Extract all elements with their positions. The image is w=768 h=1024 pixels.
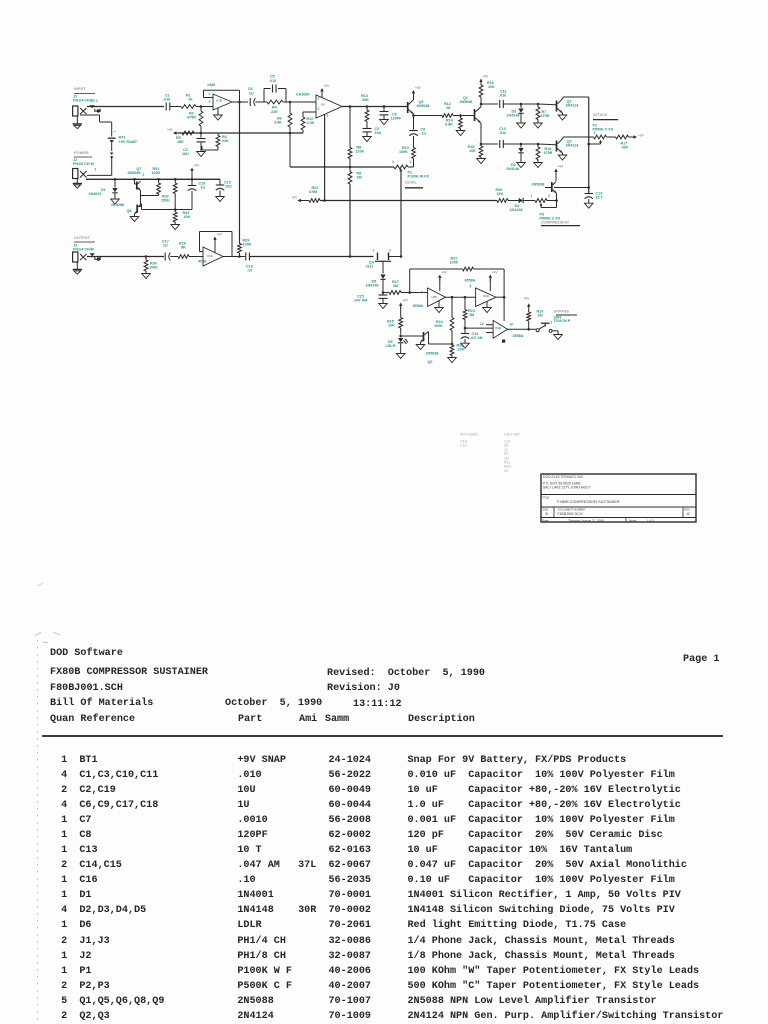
svg-text:150K: 150K <box>161 199 170 203</box>
wire pot P1 wiper down <box>400 172 402 257</box>
svg-text:LAST REF.: LAST REF. <box>504 433 521 437</box>
separator rule <box>42 735 723 737</box>
svg-text:18K: 18K <box>177 140 184 144</box>
diode D2 <box>520 144 522 148</box>
svg-text:100K: 100K <box>399 150 408 154</box>
svg-text:2N5088: 2N5088 <box>128 171 141 175</box>
wire <box>538 143 556 146</box>
resistor R14 <box>460 116 462 119</box>
svg-text:SALT LAKE CITY, UTAH 84107: SALT LAKE CITY, UTAH 84107 <box>543 486 590 490</box>
svg-text:+9V: +9V <box>167 128 174 132</box>
capacitor C16 <box>245 253 247 261</box>
left margin dotted line <box>37 640 38 1024</box>
power +9V at R21 <box>298 199 302 202</box>
svg-text:100K: 100K <box>434 324 443 328</box>
svg-text:3.9K: 3.9K <box>274 121 282 125</box>
power +9V at U1A <box>214 239 216 243</box>
svg-text:10U: 10U <box>375 131 382 135</box>
node <box>480 103 483 106</box>
svg-text:475R: 475R <box>187 116 196 120</box>
resistor R12 <box>414 115 443 117</box>
op-amp U3C <box>428 288 446 307</box>
resistor R28 <box>178 255 189 259</box>
svg-text:9: 9 <box>421 291 423 295</box>
wire pot track line <box>290 166 394 168</box>
resistor R5 <box>182 131 194 135</box>
svg-text:U1B: U1B <box>216 98 222 102</box>
svg-text:C6: C6 <box>248 87 253 91</box>
resistor R4 <box>267 100 283 104</box>
svg-text:100K: 100K <box>243 243 252 247</box>
wire upper channel <box>481 103 498 105</box>
ground <box>517 123 526 128</box>
resistor R13 <box>366 107 368 111</box>
svg-text:U2: U2 <box>321 102 325 106</box>
node <box>174 208 177 211</box>
capacitor C9 <box>413 116 415 130</box>
resistor R26 <box>450 345 454 356</box>
switch SW1 <box>536 329 539 332</box>
bias rail wire <box>178 132 303 134</box>
power +9V at R16 <box>480 81 482 85</box>
svg-text:PH1/4 CH(B): PH1/4 CH(B) <box>73 98 95 102</box>
op-amp U3A <box>476 288 496 307</box>
feedback wire top <box>410 268 463 270</box>
svg-text:1: 1 <box>531 194 533 198</box>
svg-text:+9V: +9V <box>402 299 409 303</box>
node <box>520 103 523 106</box>
svg-text:Q6: Q6 <box>428 360 433 364</box>
node <box>408 291 411 294</box>
svg-text:2N4124: 2N4124 <box>566 104 580 108</box>
resistor R21 <box>309 199 320 203</box>
svg-text:2N5088: 2N5088 <box>426 352 439 356</box>
svg-text:475R: 475R <box>541 114 550 118</box>
svg-text:BYPASS: BYPASS <box>554 309 569 313</box>
svg-text:.010: .010 <box>269 79 276 83</box>
svg-text:.010: .010 <box>499 94 506 98</box>
potentiometer P1 <box>394 165 408 169</box>
svg-text:Q8: Q8 <box>127 209 132 213</box>
svg-text:33K: 33K <box>622 146 629 150</box>
ground <box>448 358 457 363</box>
wire bias corner down to pot line <box>289 133 291 167</box>
svg-text:SIZE: SIZE <box>543 507 549 511</box>
svg-text:P100K W FX: P100K W FX <box>408 175 430 179</box>
svg-text:2: 2 <box>209 92 211 96</box>
svg-text:U3C: U3C <box>432 295 439 299</box>
svg-text:+9V: +9V <box>324 84 331 88</box>
svg-text:Date:: Date: <box>542 518 549 522</box>
ground at U3A <box>486 302 488 308</box>
svg-text:LEVEL: LEVEL <box>405 181 418 185</box>
resistor R22 <box>463 267 474 271</box>
resistor R33 <box>174 210 176 213</box>
wire Q7 emitter <box>141 195 159 197</box>
svg-text:4558: 4558 <box>198 260 206 264</box>
wire Q2 collector to vertical <box>563 96 589 98</box>
op-amp U1A <box>203 247 223 266</box>
power +9V at U3A <box>489 277 491 281</box>
svg-text:10K: 10K <box>184 215 191 219</box>
capacitor C17 <box>164 253 166 261</box>
jack J2 <box>73 169 78 179</box>
svg-text:2N5088: 2N5088 <box>460 100 473 104</box>
svg-text:+9V: +9V <box>483 75 490 79</box>
svg-text:Thursday, August 27, 2009: Thursday, August 27, 2009 <box>568 518 604 522</box>
transistor Q1 <box>474 109 476 121</box>
svg-text:+9V: +9V <box>292 195 299 199</box>
ground <box>461 343 470 348</box>
svg-text:2: 2 <box>95 168 97 172</box>
BOM table rows <box>43 753 724 1024</box>
wire U3B output <box>508 328 537 330</box>
title block border <box>541 474 696 522</box>
resistor R15 <box>480 144 482 146</box>
node <box>464 327 467 330</box>
svg-text:1458: 1458 <box>207 83 215 87</box>
capacitor C15 <box>382 293 384 295</box>
svg-text:475R: 475R <box>544 151 553 155</box>
svg-text:PH1/8 CH M: PH1/8 CH M <box>73 162 94 166</box>
potentiometer P3 <box>535 199 547 203</box>
wire <box>461 115 474 117</box>
transistor Q8 <box>136 205 138 213</box>
node <box>537 143 540 146</box>
svg-text:P500K C FX: P500K C FX <box>593 128 614 132</box>
svg-text:10: 10 <box>510 322 514 326</box>
wire <box>521 103 538 105</box>
svg-text:+9V: +9V <box>524 296 531 300</box>
node <box>451 296 454 299</box>
power +9V at rail <box>191 170 193 174</box>
power pin of U3B <box>502 340 505 343</box>
wire U2 bias pin to R21 rail <box>324 114 326 200</box>
resistor R24 <box>451 297 453 317</box>
svg-text:4558A: 4558A <box>513 334 524 338</box>
svg-text:2: 2 <box>143 173 145 177</box>
jack J1 <box>73 106 78 116</box>
power +9V at U2 <box>321 90 323 94</box>
svg-text:10K: 10K <box>458 348 465 352</box>
wire U3C output <box>446 296 476 298</box>
node <box>349 105 352 108</box>
node <box>174 178 177 181</box>
svg-text:+9V: +9V <box>558 165 565 169</box>
node <box>587 186 590 189</box>
svg-text:REV: REV <box>685 507 691 511</box>
ground <box>379 304 388 309</box>
capacitor C5 with resistor R4 parallel <box>263 89 265 103</box>
capacitor C6 <box>249 98 251 106</box>
wire U1A output <box>223 256 245 258</box>
ground at U3C <box>438 301 440 308</box>
scan specks <box>38 583 43 586</box>
title block divider <box>682 507 684 518</box>
svg-text:TITLE: TITLE <box>542 495 549 499</box>
ground <box>554 335 563 340</box>
transistor Q2 <box>556 101 558 112</box>
wire U1B output <box>232 101 248 103</box>
scan speck marks <box>25 628 105 648</box>
svg-text:1U: 1U <box>249 91 254 95</box>
svg-text:10K: 10K <box>388 324 395 328</box>
ground <box>558 115 567 120</box>
node <box>200 132 203 135</box>
ground <box>558 155 567 160</box>
node <box>412 114 415 117</box>
svg-text:1N4001: 1N4001 <box>89 192 102 196</box>
capacitor C8 <box>383 107 385 112</box>
svg-text:1U: 1U <box>163 244 168 248</box>
rail from R21 <box>320 200 497 202</box>
svg-text:1K: 1K <box>188 98 193 102</box>
diode D4 <box>519 198 523 203</box>
svg-text:100K: 100K <box>149 266 158 270</box>
svg-text:220K: 220K <box>356 150 365 154</box>
capacitor C14 <box>464 328 466 333</box>
ground <box>534 163 543 168</box>
resistor R9 <box>348 172 352 185</box>
resistor R3 <box>217 133 219 136</box>
resistor R19 <box>527 312 531 321</box>
svg-text:1M: 1M <box>538 314 543 318</box>
svg-text:22K: 22K <box>271 110 278 114</box>
svg-text:DOCUMENT NUMBER: DOCUMENT NUMBER <box>558 507 585 511</box>
svg-text:+9V: +9V <box>492 271 499 275</box>
svg-text:+9V SNAP: +9V SNAP <box>119 140 138 144</box>
capacitor C19 <box>219 179 221 184</box>
resistor R23 <box>464 297 466 309</box>
svg-text:1: 1 <box>410 160 412 164</box>
node <box>145 255 148 258</box>
svg-text:3: 3 <box>209 99 211 103</box>
wire to battery via ring contact <box>80 114 100 116</box>
op-amp U1B <box>213 94 232 110</box>
node <box>349 166 352 169</box>
svg-text:33K: 33K <box>497 192 504 196</box>
resistor R31 <box>158 179 160 183</box>
resistor R32 <box>174 179 176 183</box>
power +9V at Q9 <box>413 92 415 96</box>
svg-text:+9V: +9V <box>194 164 201 168</box>
node <box>366 105 369 108</box>
resistor R27 <box>383 292 389 294</box>
feedback wire vertical <box>409 269 411 293</box>
power +9V at U3C <box>439 277 441 281</box>
svg-text:1U: 1U <box>201 186 206 190</box>
resistor R2 <box>200 107 202 112</box>
ground <box>171 225 180 230</box>
svg-text:2: 2 <box>373 249 375 253</box>
svg-text:4558A: 4558A <box>413 304 424 308</box>
svg-text:D1: D1 <box>101 188 106 192</box>
ground <box>416 345 425 350</box>
op-amp U3B <box>493 320 507 338</box>
svg-text:INPUT: INPUT <box>74 86 86 91</box>
feedback wire of U1A <box>200 251 204 253</box>
svg-text:5: 5 <box>327 114 329 118</box>
resistor R16 <box>479 85 483 97</box>
wire U2 output <box>342 106 408 108</box>
svg-text:.047 AM: .047 AM <box>354 299 368 303</box>
node <box>520 143 523 146</box>
node <box>114 178 117 181</box>
wire J2 tip to battery <box>87 174 112 176</box>
transistor Q5 <box>555 171 557 175</box>
svg-text:+9V: +9V <box>441 271 448 275</box>
svg-text:1N4148: 1N4148 <box>507 114 520 118</box>
ground <box>380 120 389 125</box>
ground <box>517 163 526 168</box>
svg-text:10K: 10K <box>469 149 476 153</box>
resistor R7 <box>537 104 539 107</box>
ground <box>111 199 120 204</box>
wire Q8 collector <box>142 209 193 211</box>
diode D1 <box>114 179 116 187</box>
ground <box>216 197 225 202</box>
svg-text:2N5088: 2N5088 <box>111 203 124 207</box>
svg-text:1M: 1M <box>393 284 398 288</box>
resistor R10 <box>412 148 416 159</box>
resistor R17 <box>607 136 616 138</box>
svg-text:2: 2 <box>318 107 320 111</box>
node <box>555 199 558 202</box>
LED D6 <box>400 333 402 335</box>
title block divider <box>541 517 696 519</box>
ground <box>456 131 465 136</box>
node <box>383 105 386 108</box>
svg-text:2N5088: 2N5088 <box>532 183 545 187</box>
svg-text:1: 1 <box>551 321 553 325</box>
svg-text:OUTPUT: OUTPUT <box>74 235 91 240</box>
svg-text:4558A: 4558A <box>465 278 476 282</box>
svg-text:C12: C12 <box>460 444 466 448</box>
svg-text:2N4124: 2N4124 <box>566 144 580 148</box>
svg-text:1 of 1: 1 of 1 <box>647 518 655 522</box>
svg-text:+: + <box>114 130 116 134</box>
node <box>464 296 467 299</box>
svg-text:COMPRESSION: COMPRESSION <box>541 220 569 224</box>
svg-text:6.8K: 6.8K <box>445 123 453 127</box>
svg-text:3: 3 <box>548 194 550 198</box>
node <box>537 103 540 106</box>
svg-text:1: 1 <box>96 99 98 103</box>
resistor R6 <box>289 102 291 113</box>
ground <box>142 274 151 279</box>
capacitor C18 <box>191 179 193 185</box>
svg-text:10K: 10K <box>488 85 495 89</box>
svg-text:U1A: U1A <box>207 254 214 258</box>
svg-text:+9V: +9V <box>415 86 422 90</box>
svg-text:POWER: POWER <box>74 150 89 155</box>
node <box>451 343 454 346</box>
ground <box>76 262 78 270</box>
diode D5 <box>380 275 385 279</box>
title block divider <box>541 506 696 508</box>
ground <box>534 123 543 128</box>
node <box>349 255 352 258</box>
wire to Q8 base <box>140 196 142 207</box>
node <box>459 114 462 117</box>
svg-text:.047 AM: .047 AM <box>471 336 483 340</box>
svg-text:10 T: 10 T <box>596 196 604 200</box>
node <box>480 143 483 146</box>
transistor Q9 <box>407 102 409 113</box>
svg-text:5: 5 <box>470 285 472 289</box>
ground <box>76 116 78 124</box>
svg-text:100K: 100K <box>152 171 161 175</box>
svg-text:120PF: 120PF <box>391 117 403 121</box>
title block divider <box>541 494 696 496</box>
node <box>133 178 136 181</box>
power rail wire <box>86 178 220 180</box>
wire U3A output <box>496 296 504 298</box>
svg-text:J0: J0 <box>686 512 690 516</box>
svg-text:2N5088: 2N5088 <box>417 104 430 108</box>
node <box>400 255 403 258</box>
node <box>382 291 385 294</box>
resistor R18 <box>537 144 539 147</box>
capacitor C3 <box>200 133 202 138</box>
svg-text:LDLR: LDLR <box>386 344 396 348</box>
wire <box>286 101 316 103</box>
capacitor C10 <box>499 140 501 148</box>
svg-text:2K: 2K <box>446 106 451 110</box>
resistor R11 <box>302 130 304 133</box>
svg-text:1N4148: 1N4148 <box>510 208 523 212</box>
svg-text:9K: 9K <box>181 246 186 250</box>
capacitor C1 <box>165 103 167 111</box>
svg-text:12: 12 <box>480 322 484 326</box>
resistor R20 <box>497 199 508 203</box>
node <box>157 178 160 181</box>
resistor R8 <box>349 107 351 148</box>
svg-text:2: 2 <box>392 160 394 164</box>
diode D3 <box>520 104 522 108</box>
node <box>587 143 590 146</box>
svg-text:1: 1 <box>90 247 92 251</box>
svg-text:+9V: +9V <box>638 134 645 138</box>
svg-text:10U: 10U <box>225 185 232 189</box>
svg-text:Sheet: Sheet <box>629 518 637 522</box>
svg-text:1N4148: 1N4148 <box>506 167 519 171</box>
svg-text:+9V: +9V <box>217 233 224 237</box>
ground <box>584 203 593 208</box>
svg-text:3: 3 <box>594 131 596 135</box>
node on bias rail <box>289 132 292 135</box>
svg-text:CA3080: CA3080 <box>296 93 310 97</box>
ground at U1B <box>217 108 219 115</box>
ground <box>197 152 206 157</box>
wire Q5 to vertical <box>554 187 589 189</box>
title block divider <box>553 507 555 518</box>
svg-text:1N4148: 1N4148 <box>366 284 379 288</box>
title block divider <box>625 518 627 523</box>
node <box>191 178 194 181</box>
ground <box>130 217 139 222</box>
resistor R25 <box>400 307 402 318</box>
svg-text:1M: 1M <box>469 313 474 317</box>
wire long vertical to R29 <box>239 102 241 244</box>
node <box>399 335 402 338</box>
node <box>238 255 241 258</box>
svg-text:10U: 10U <box>182 152 189 156</box>
svg-text:F80BJ001.SCH: F80BJ001.SCH <box>558 512 583 516</box>
svg-text:.010: .010 <box>163 98 170 102</box>
node at U1B input <box>200 105 203 108</box>
svg-text:3: 3 <box>318 96 320 100</box>
